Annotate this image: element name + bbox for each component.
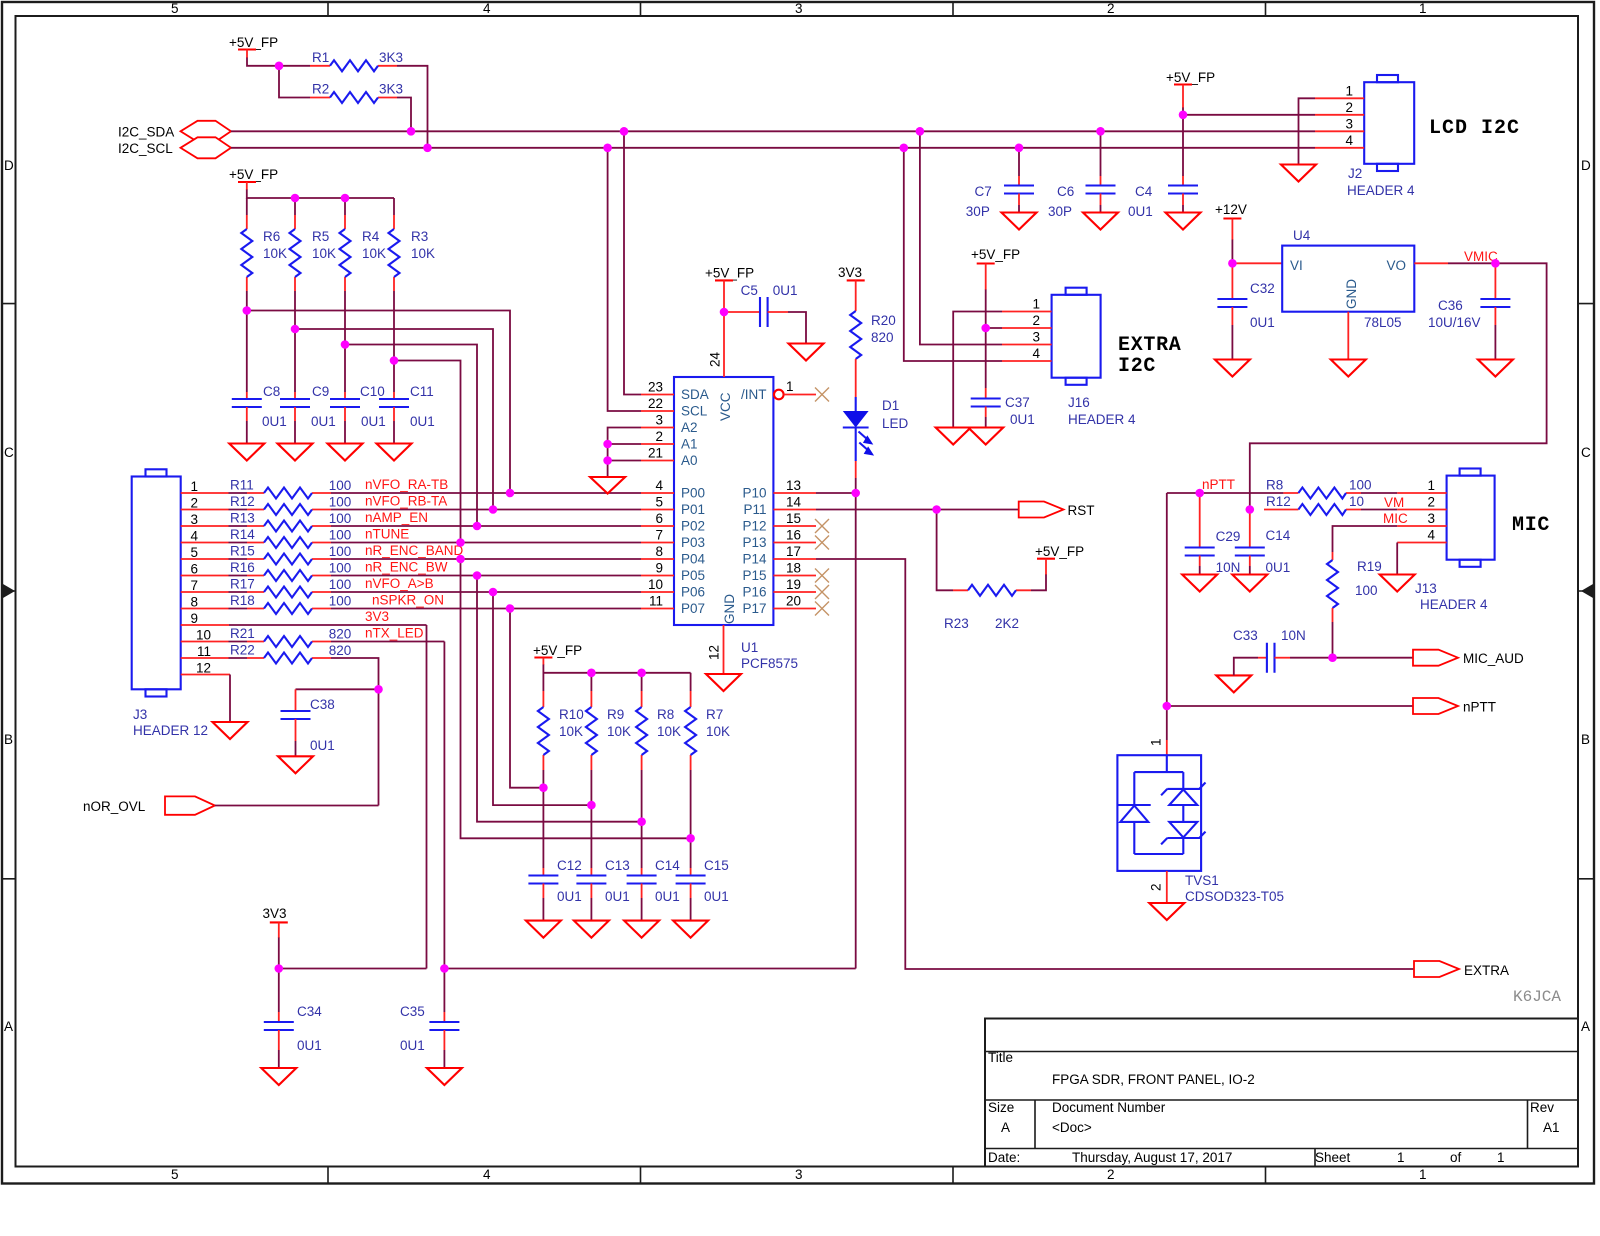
- ground C14: [1232, 575, 1267, 592]
- wire +5V to J2 pin2: [1183, 114, 1315, 116]
- net flag MIC_AUD: [1413, 650, 1524, 666]
- wire P05 row: [331, 560, 641, 576]
- svg-text:C5: C5: [741, 283, 758, 298]
- wire R3 column to C11: [393, 294, 395, 392]
- wire nTX_LED row: [331, 626, 444, 642]
- resistor R18: [181, 593, 352, 614]
- svg-text:C11: C11: [410, 384, 434, 399]
- resistor R4: [340, 198, 387, 294]
- svg-text:Date:: Date:: [988, 1150, 1020, 1165]
- svg-text:R14: R14: [230, 527, 255, 542]
- svg-text:0U1: 0U1: [262, 414, 287, 429]
- svg-text:1: 1: [1427, 478, 1435, 493]
- G7 J16: [904, 131, 1182, 444]
- svg-text:3: 3: [1427, 511, 1435, 526]
- svg-text:4: 4: [1427, 528, 1435, 543]
- J3 pin numbers: [190, 479, 211, 676]
- svg-text:0U1: 0U1: [773, 283, 798, 298]
- svg-text:2K2: 2K2: [995, 616, 1019, 631]
- svg-text:Thursday, August 17, 2017: Thursday, August 17, 2017: [1072, 1150, 1232, 1165]
- border zone labels top: [171, 1, 1427, 16]
- svg-text:MIC: MIC: [1512, 514, 1550, 537]
- svg-text:P17: P17: [742, 601, 766, 616]
- ground C7: [1002, 213, 1037, 230]
- net flag nOR_OVL: [83, 796, 379, 814]
- svg-text:0U1: 0U1: [1128, 204, 1153, 219]
- svg-text:C34: C34: [297, 1004, 322, 1019]
- svg-text:8: 8: [190, 595, 198, 610]
- svg-text:B: B: [4, 732, 13, 747]
- svg-text:100: 100: [1355, 583, 1378, 598]
- svg-text:P02: P02: [681, 519, 705, 534]
- svg-text:Document Number: Document Number: [1052, 1100, 1166, 1115]
- svg-text:22: 22: [648, 396, 663, 411]
- power 3V3 (LED): [838, 265, 865, 311]
- svg-text:1: 1: [786, 379, 794, 394]
- svg-text:C36: C36: [1438, 298, 1463, 313]
- wire 3V3 pin9 drop: [426, 625, 428, 969]
- svg-text:P16: P16: [742, 585, 766, 600]
- svg-text:C15: C15: [704, 858, 729, 873]
- ground C35: [427, 1068, 462, 1085]
- wire P14 to EXTRA: [816, 559, 1414, 969]
- capacitor C33: [1233, 628, 1306, 675]
- svg-text:nVFO_RB-TA: nVFO_RB-TA: [365, 494, 447, 509]
- svg-text:R12: R12: [1266, 494, 1291, 509]
- svg-text:10N: 10N: [1281, 628, 1306, 643]
- svg-text:R17: R17: [230, 577, 255, 592]
- svg-text:C14: C14: [655, 858, 680, 873]
- svg-text:C13: C13: [605, 858, 630, 873]
- G9 U4: [1215, 202, 1547, 510]
- resistor R12b: [1264, 494, 1404, 515]
- power +5V_FP (R10-R7): [533, 643, 582, 665]
- svg-text:6: 6: [655, 511, 663, 526]
- svg-text:C10: C10: [360, 384, 385, 399]
- wire J16 pin4 to SCL: [904, 148, 1002, 361]
- svg-text:of: of: [1450, 1150, 1462, 1165]
- K6JCA watermark: [1513, 988, 1561, 1006]
- svg-text:1: 1: [1032, 297, 1040, 312]
- no-connect P15: [815, 569, 829, 583]
- label EXTRA I2C: [1118, 334, 1182, 378]
- wire bus I2C_SCL: [231, 147, 1315, 149]
- svg-text:3: 3: [1032, 330, 1040, 345]
- svg-text:13: 13: [786, 478, 801, 493]
- capacitor C4: [1128, 108, 1198, 220]
- svg-text:C29: C29: [1216, 529, 1241, 544]
- wire P05 to R8 bus: [477, 576, 642, 822]
- svg-text:+12V: +12V: [1215, 202, 1247, 217]
- resistor R10: [538, 673, 584, 770]
- border zone ticks top: [328, 2, 1266, 16]
- wire R10 column to C12: [542, 770, 544, 868]
- svg-text:GND: GND: [1344, 279, 1359, 309]
- G2 pullups R6-R3: [229, 167, 510, 543]
- J2 pin numbers: [1345, 84, 1353, 149]
- no-connect /INT: [815, 388, 829, 402]
- svg-text:1: 1: [1345, 84, 1353, 99]
- svg-text:C37: C37: [1005, 395, 1030, 410]
- J16 pin stubs: [1002, 312, 1052, 362]
- svg-text:/INT: /INT: [741, 387, 767, 402]
- svg-text:VCC: VCC: [718, 392, 733, 421]
- TVS1 pin1: [1149, 738, 1167, 755]
- wire P06 row: [331, 576, 641, 592]
- ground C15: [673, 921, 708, 938]
- svg-text:15: 15: [786, 511, 801, 526]
- svg-text:J16: J16: [1068, 395, 1090, 410]
- svg-text:P06: P06: [681, 585, 705, 600]
- svg-text:A: A: [1581, 1019, 1590, 1034]
- svg-text:11: 11: [197, 644, 211, 659]
- connector J13: [1415, 469, 1495, 613]
- svg-text:C12: C12: [557, 858, 582, 873]
- svg-text:3: 3: [795, 1, 803, 16]
- pin /INT bubble: [774, 379, 816, 399]
- wire R8 column to C14: [641, 770, 643, 868]
- resistor R7: [685, 673, 730, 770]
- svg-text:GND: GND: [722, 594, 737, 624]
- label MIC header: [1512, 514, 1550, 537]
- resistor R12: [181, 494, 352, 515]
- no-connect P16: [815, 585, 829, 599]
- ground C36: [1478, 360, 1513, 377]
- svg-text:1: 1: [1419, 1, 1427, 16]
- svg-text:C35: C35: [400, 1004, 425, 1019]
- wire bus I2C_SDA: [231, 130, 1315, 132]
- svg-text:3: 3: [1345, 117, 1353, 132]
- LED D1: [843, 397, 909, 493]
- svg-text:U1: U1: [741, 640, 758, 655]
- power +5V_FP (R6-R3): [229, 167, 278, 190]
- svg-text:PCF8575: PCF8575: [741, 656, 798, 671]
- capacitor C35: [400, 1004, 459, 1068]
- svg-text:MIC: MIC: [1383, 511, 1408, 526]
- svg-text:2: 2: [1427, 495, 1435, 510]
- wire RST to R23: [937, 510, 953, 591]
- capacitor C14a: [627, 858, 681, 921]
- svg-text:0U1: 0U1: [605, 889, 630, 904]
- svg-text:P04: P04: [681, 552, 706, 567]
- U1 left pin stubs: [641, 395, 674, 609]
- wire R1 to SCL: [397, 66, 428, 148]
- svg-text:820: 820: [871, 330, 894, 345]
- svg-text:100: 100: [329, 478, 352, 493]
- resistor R23: [944, 585, 1031, 631]
- power +12V: [1215, 202, 1247, 240]
- J16 pin numbers: [1032, 297, 1040, 362]
- svg-text:0U1: 0U1: [400, 1038, 425, 1053]
- resistor R2: [310, 82, 403, 104]
- power +5V_FP (U1 VCC): [705, 266, 754, 313]
- svg-text:0U1: 0U1: [557, 889, 582, 904]
- svg-text:5: 5: [171, 1, 179, 16]
- capacitor C9: [280, 384, 336, 444]
- wire A2 A1 A0 to ground: [608, 428, 641, 478]
- wire J13 pin4 to ground: [1396, 543, 1398, 575]
- svg-text:I2C_SDA: I2C_SDA: [118, 125, 174, 140]
- svg-text:P12: P12: [742, 519, 766, 534]
- resistor R21: [181, 626, 352, 647]
- wire P04 to R7 bus: [461, 559, 691, 838]
- svg-text:0U1: 0U1: [311, 414, 336, 429]
- svg-text:RST: RST: [1068, 503, 1095, 518]
- power +5V_FP (J2 C4): [1166, 70, 1215, 108]
- G6 LED RST: [838, 265, 1509, 978]
- ground C34: [261, 1068, 296, 1085]
- svg-text:10U/16V: 10U/16V: [1428, 315, 1481, 330]
- svg-text:14: 14: [786, 495, 802, 510]
- svg-text:3V3: 3V3: [263, 906, 287, 921]
- svg-text:P13: P13: [742, 535, 766, 550]
- svg-text:HEADER 4: HEADER 4: [1068, 412, 1136, 427]
- svg-text:VM: VM: [1384, 495, 1404, 510]
- net flag nPTT: [1413, 698, 1496, 715]
- resistor R14: [181, 527, 352, 548]
- svg-text:SCL: SCL: [681, 404, 708, 419]
- capacitor C37: [971, 328, 1035, 428]
- ground C38: [278, 756, 313, 773]
- capacitor C32: [1217, 263, 1274, 359]
- wire P01 row: [331, 494, 641, 510]
- svg-text:C7: C7: [975, 184, 992, 199]
- TVS1 CDSOD323-T05: [1117, 755, 1284, 904]
- wire bus R4 to P02: [345, 345, 477, 527]
- svg-text:D: D: [4, 158, 14, 173]
- border zone labels bottom: [171, 1167, 1427, 1182]
- wire bus R3 to P03: [394, 361, 461, 543]
- svg-text:0U1: 0U1: [297, 1038, 322, 1053]
- svg-text:5: 5: [190, 545, 198, 560]
- svg-text:nTX_LED: nTX_LED: [365, 626, 424, 641]
- svg-text:Rev: Rev: [1530, 1100, 1554, 1115]
- wire bus R5 to P01: [295, 329, 493, 510]
- svg-text:SDA: SDA: [681, 387, 709, 402]
- resistor R22: [181, 643, 352, 664]
- svg-text:P10: P10: [742, 486, 766, 501]
- svg-text:FPGA SDR, FRONT PANEL, IO-2: FPGA SDR, FRONT PANEL, IO-2: [1052, 1072, 1255, 1087]
- capacitor C12: [528, 858, 581, 921]
- svg-text:K6JCA: K6JCA: [1513, 988, 1561, 1006]
- wire J2 pin1 to ground: [1299, 98, 1316, 164]
- svg-text:100: 100: [329, 561, 352, 576]
- svg-text:+5V_FP: +5V_FP: [705, 266, 754, 281]
- svg-text:C32: C32: [1250, 281, 1275, 296]
- svg-text:8: 8: [655, 544, 663, 559]
- ground C33: [1216, 675, 1251, 692]
- ground C8: [229, 444, 264, 461]
- svg-text:24: 24: [708, 351, 723, 367]
- svg-text:+5V_FP: +5V_FP: [971, 247, 1020, 262]
- wire P07 row: [331, 593, 641, 609]
- svg-text:nVFO_A>B: nVFO_A>B: [365, 576, 434, 591]
- capacitor C5: [724, 283, 806, 344]
- svg-text:R13: R13: [230, 511, 255, 526]
- wire P11 to RST: [816, 509, 1019, 511]
- connector J3: [132, 469, 208, 738]
- svg-text:100: 100: [329, 495, 352, 510]
- resistor R3: [389, 198, 436, 294]
- capacitor C10: [330, 384, 386, 444]
- svg-text:P00: P00: [681, 486, 705, 501]
- wire P04 row: [331, 543, 641, 559]
- wire VMIC to R12 C14: [1250, 263, 1547, 509]
- svg-text:23: 23: [648, 380, 663, 395]
- svg-text:2: 2: [1107, 1, 1115, 16]
- border zone ticks right: [1578, 304, 1594, 879]
- svg-text:R5: R5: [312, 229, 329, 244]
- wire R4 column to C10: [344, 294, 346, 392]
- svg-text:+5V_FP: +5V_FP: [229, 167, 278, 182]
- svg-text:0U1: 0U1: [704, 889, 729, 904]
- wire P03 row: [331, 527, 641, 543]
- wire P00 row: [331, 477, 641, 493]
- wire SDA bus to U1: [624, 131, 641, 394]
- svg-text:VI: VI: [1290, 258, 1303, 273]
- wire J16 pin3 to SDA: [920, 131, 1002, 344]
- wire P02 row: [331, 510, 641, 526]
- border zone ticks bottom: [328, 1167, 1266, 1184]
- svg-text:10K: 10K: [657, 724, 681, 739]
- svg-text:10K: 10K: [559, 724, 583, 739]
- svg-text:nPTT: nPTT: [1463, 700, 1496, 715]
- net flag EXTRA: [1414, 961, 1509, 978]
- svg-text:10K: 10K: [312, 246, 336, 261]
- G3 J3: [83, 469, 641, 815]
- svg-text:4: 4: [483, 1167, 491, 1182]
- svg-text:1: 1: [1397, 1150, 1405, 1165]
- svg-text:Sheet: Sheet: [1315, 1150, 1351, 1165]
- U1 pin names: [681, 387, 767, 624]
- svg-text:R12: R12: [230, 494, 255, 509]
- capacitor C14: [1235, 510, 1291, 576]
- svg-text:R7: R7: [706, 707, 723, 722]
- svg-text:100: 100: [329, 528, 352, 543]
- svg-text:<Doc>: <Doc>: [1052, 1120, 1092, 1135]
- svg-text:J13: J13: [1415, 581, 1437, 596]
- svg-text:nPTT: nPTT: [1202, 477, 1235, 492]
- border mid arrow left: [3, 584, 15, 598]
- svg-text:+5V_FP: +5V_FP: [1166, 70, 1215, 85]
- svg-text:+5V_FP: +5V_FP: [1035, 544, 1084, 559]
- svg-text:30P: 30P: [966, 204, 990, 219]
- svg-text:VO: VO: [1386, 258, 1406, 273]
- ground C5: [789, 344, 824, 361]
- connector J16: [1052, 288, 1136, 427]
- svg-text:R8: R8: [1266, 478, 1283, 493]
- svg-text:2: 2: [190, 496, 198, 511]
- svg-text:1: 1: [190, 479, 198, 494]
- svg-text:3: 3: [795, 1167, 803, 1182]
- wire +5V to J16 pin2: [986, 290, 1002, 329]
- svg-text:P11: P11: [743, 502, 766, 517]
- svg-text:CDSOD323-T05: CDSOD323-T05: [1185, 889, 1284, 904]
- svg-text:B: B: [1581, 732, 1590, 747]
- capacitor C13: [576, 858, 629, 921]
- svg-text:A1: A1: [681, 437, 698, 452]
- wire +5V to R1: [247, 58, 310, 66]
- power 3V3 bottom: [263, 906, 288, 938]
- svg-text:I2C_SCL: I2C_SCL: [118, 141, 173, 156]
- wire R7 column to C15: [690, 770, 692, 868]
- wire nPTT row: [1167, 477, 1284, 493]
- resistor R17: [181, 577, 352, 598]
- connector J2: [1347, 75, 1415, 198]
- svg-text:J3: J3: [133, 707, 147, 722]
- svg-text:R11: R11: [230, 478, 254, 493]
- label LCD I2C: [1429, 117, 1520, 140]
- wire nPTT vertical: [1166, 493, 1168, 740]
- G8 J2: [966, 70, 1520, 230]
- ground J2: [1281, 165, 1316, 182]
- svg-text:4: 4: [483, 1, 491, 16]
- svg-text:C: C: [4, 445, 14, 460]
- svg-text:R3: R3: [411, 229, 428, 244]
- svg-text:Title: Title: [988, 1050, 1013, 1065]
- wire R22 to C38 node: [331, 658, 379, 806]
- border zone labels left: [4, 158, 14, 1034]
- svg-text:+5V_FP: +5V_FP: [533, 643, 582, 658]
- power +5V_FP (R23): [1035, 544, 1084, 575]
- no-connect P17: [815, 602, 829, 616]
- no-connect P13: [815, 536, 829, 550]
- svg-text:C4: C4: [1135, 184, 1153, 199]
- svg-text:3K3: 3K3: [379, 50, 403, 65]
- capacitor C7: [966, 148, 1034, 219]
- svg-text:nAMP_EN: nAMP_EN: [365, 510, 428, 525]
- svg-text:2: 2: [1107, 1167, 1115, 1182]
- wire nTX_LED drop: [443, 642, 445, 1013]
- svg-text:C8: C8: [263, 384, 280, 399]
- svg-text:100: 100: [329, 544, 352, 559]
- pin U4 GND: [1347, 312, 1349, 360]
- G11 TVS: [1117, 738, 1284, 920]
- ground J16 pin1: [936, 428, 971, 445]
- ground C37: [968, 428, 1003, 445]
- svg-text:P05: P05: [681, 568, 705, 583]
- svg-text:30P: 30P: [1048, 204, 1072, 219]
- ground C13: [574, 921, 609, 938]
- svg-text:A2: A2: [681, 420, 698, 435]
- svg-text:10: 10: [1349, 494, 1364, 509]
- G1 top-left: [118, 35, 1315, 158]
- svg-text:nR_ENC_BAND: nR_ENC_BAND: [365, 543, 464, 558]
- svg-text:P01: P01: [681, 502, 705, 517]
- wire P06 to R9 bus: [493, 592, 591, 805]
- svg-text:3: 3: [190, 512, 198, 527]
- svg-text:10: 10: [648, 577, 663, 592]
- svg-text:9: 9: [655, 561, 663, 576]
- ground C12: [526, 921, 561, 938]
- svg-text:R23: R23: [944, 616, 969, 631]
- svg-text:I2C: I2C: [1118, 355, 1156, 378]
- wire MIC_AUD: [1290, 657, 1413, 659]
- wire nPTT to flag: [1167, 705, 1413, 707]
- svg-text:R8: R8: [657, 707, 674, 722]
- wire +5V rail R10-R7: [543, 665, 690, 673]
- wire pin12 to ground: [181, 675, 230, 723]
- wire SCL bus to U1: [608, 148, 641, 411]
- svg-text:4: 4: [190, 529, 198, 544]
- svg-text:6: 6: [190, 562, 198, 577]
- resistor R11: [181, 478, 352, 499]
- svg-text:P15: P15: [742, 568, 766, 583]
- svg-text:R9: R9: [607, 707, 624, 722]
- svg-text:nTUNE: nTUNE: [365, 527, 409, 542]
- svg-text:J2: J2: [1348, 166, 1362, 181]
- svg-text:17: 17: [786, 544, 801, 559]
